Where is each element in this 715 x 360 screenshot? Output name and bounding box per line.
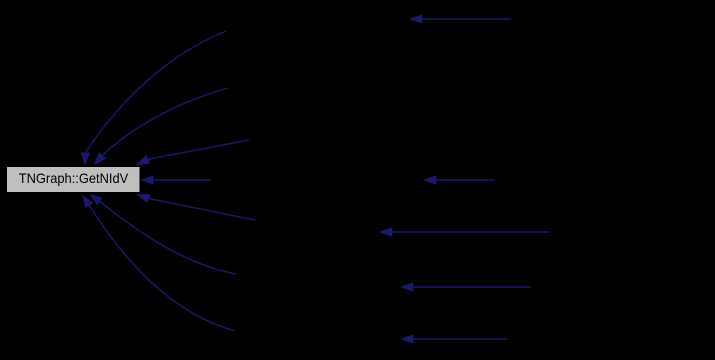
arrowhead C [379,227,392,236]
horizontal edge D (rank2 -> caller 6) [413,286,531,288]
edge 3 (caller 3 -> GetNIdV) [148,140,249,159]
svg-text:TNGraph::GetNIdV: TNGraph::GetNIdV [19,170,129,186]
arrowhead edge 3 [135,155,151,166]
edge 1 (caller 1 -> GetNIdV) [86,31,227,153]
arrowhead edge 5 [136,194,151,203]
horizontal edge B (rank2 -> caller 4) [436,179,495,181]
arrowhead B [423,175,436,184]
node TNGraph::GetNIdV [7,167,141,193]
arrowhead A [409,14,422,23]
horizontal edge E (rank2 -> caller 7) [413,338,507,340]
arrowhead edge 1 [81,152,90,166]
arrowhead edge 7 [82,194,93,208]
arrowhead D [400,282,413,291]
edge 5 (caller 5 -> GetNIdV) [149,199,256,221]
horizontal edge C (rank2 -> caller 5) [392,231,549,233]
arrowhead edge 4 [140,175,153,184]
arrowhead edge 2 [94,152,107,165]
edge 7 (caller 7 -> GetNIdV) [89,206,235,331]
edge 2 (caller 2 -> GetNIdV) [103,88,229,156]
edge 4 (caller 4 -> GetNIdV) [154,179,211,181]
arrowhead edge 6 [89,194,102,206]
horizontal edge A (rank2 -> caller 1) [422,18,511,20]
arrowhead E [400,334,413,343]
edge 6 (caller 6 -> GetNIdV) [100,202,236,274]
